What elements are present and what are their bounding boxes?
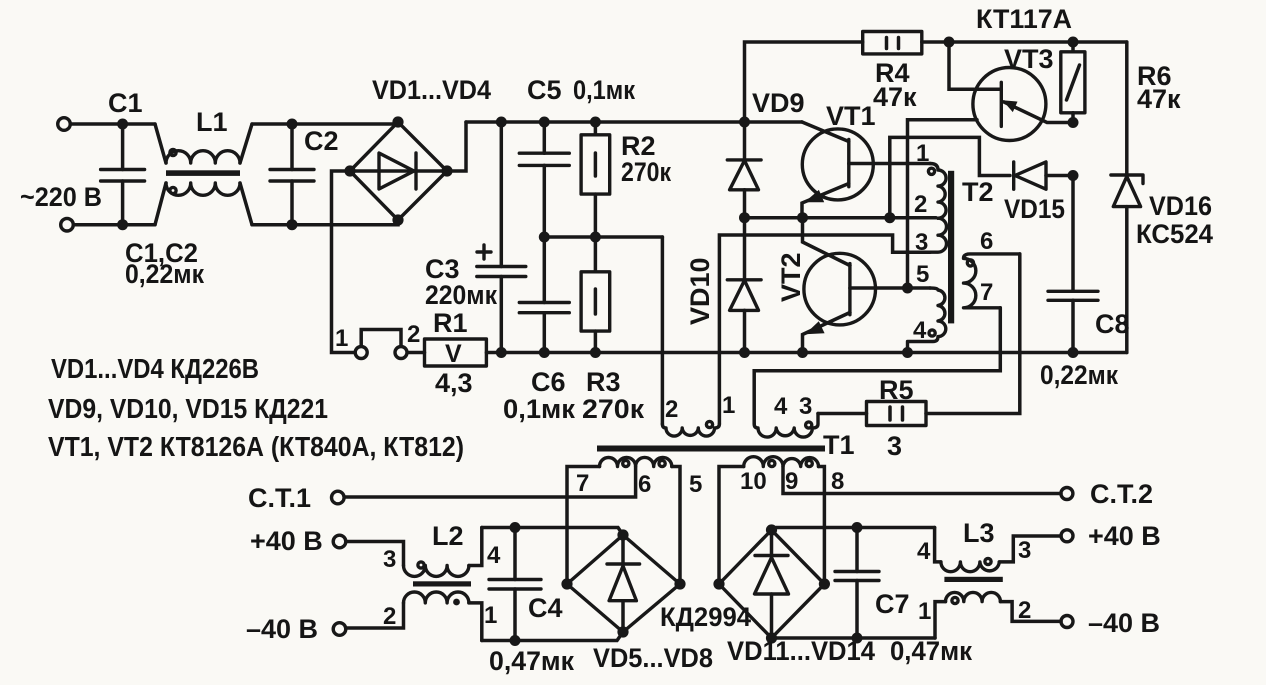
transformer T2 winding 5-4 xyxy=(908,288,946,353)
resistor R1 xyxy=(408,339,487,368)
svg-text:L1: L1 xyxy=(196,107,228,137)
svg-text:4: 4 xyxy=(917,538,931,565)
svg-text:2: 2 xyxy=(914,191,927,218)
svg-text:7: 7 xyxy=(980,279,993,306)
capacitor C8 xyxy=(1048,176,1098,353)
resistor R4 xyxy=(745,32,1127,123)
svg-text:3: 3 xyxy=(799,393,812,420)
bridge rectifier VD5...VD8 xyxy=(561,529,685,637)
svg-text:VD9: VD9 xyxy=(752,88,805,118)
svg-text:1: 1 xyxy=(918,598,931,625)
input terminal top (~220 V) xyxy=(58,118,71,131)
svg-text:VT3: VT3 xyxy=(1004,44,1054,74)
svg-text:5: 5 xyxy=(916,261,929,288)
svg-text:2: 2 xyxy=(1018,597,1031,624)
svg-text:T2: T2 xyxy=(962,177,994,207)
label R3 xyxy=(582,367,645,424)
wire: T2 pin 7 to T1 pin 4 xyxy=(754,308,1000,424)
capacitor C2 xyxy=(270,119,314,231)
wire: T1 pin 10 to bridge VD11-VD14 xyxy=(719,467,744,585)
svg-text:3: 3 xyxy=(1018,537,1031,564)
wire: T1 pin 6 to C.T.1 terminal xyxy=(345,467,636,498)
wire: VT2 base / T2 pin5 to VT3 base1 xyxy=(908,120,978,288)
svg-text:C2: C2 xyxy=(304,126,339,156)
svg-text:1: 1 xyxy=(916,140,929,167)
svg-text:5: 5 xyxy=(689,471,702,498)
terminal C.T.2 xyxy=(1061,488,1073,500)
svg-text:4: 4 xyxy=(487,542,501,569)
svg-text:0,22мк: 0,22мк xyxy=(1040,360,1118,390)
svg-text:2: 2 xyxy=(407,321,420,348)
svg-text:КД2994: КД2994 xyxy=(660,602,751,632)
svg-text:270к: 270к xyxy=(621,157,671,187)
svg-text:4: 4 xyxy=(913,317,927,344)
diode VD10 xyxy=(727,218,761,353)
label C5 xyxy=(527,75,635,105)
wire: bridge left corner to jumper terminal 1 xyxy=(332,171,356,353)
svg-text:3: 3 xyxy=(383,546,396,573)
svg-text:1: 1 xyxy=(484,602,497,629)
svg-text:1: 1 xyxy=(335,325,348,352)
zener diode VD16 xyxy=(1111,42,1143,353)
capacitor C3 (electrolytic 220мк) xyxy=(477,122,526,353)
label C8 xyxy=(1040,309,1130,390)
capacitor C6 xyxy=(519,237,569,353)
svg-text:~220 В: ~220 В xyxy=(20,182,102,212)
svg-text:2: 2 xyxy=(665,396,678,423)
jumper terminal 2 xyxy=(395,347,407,359)
inductor L3 xyxy=(935,528,1061,639)
label C6 xyxy=(503,367,575,424)
wire: T2 tap2 to VD15 (zigzag) xyxy=(890,137,1010,217)
wire: minus rail right (bridge bottom, C7, L3 pin 1) xyxy=(772,633,936,644)
svg-text:R5: R5 xyxy=(879,375,914,405)
svg-text:0,1мк: 0,1мк xyxy=(573,75,635,105)
svg-text:6: 6 xyxy=(638,471,651,498)
capacitor C7 xyxy=(835,528,879,639)
transistor VT2 xyxy=(803,218,931,353)
svg-text:R3: R3 xyxy=(586,367,621,397)
transformer T1 primary winding 2-1 xyxy=(662,421,719,436)
svg-text:3: 3 xyxy=(887,431,902,461)
svg-text:VD9, VD10, VD15 КД221: VD9, VD10, VD15 КД221 xyxy=(48,393,328,424)
svg-text:КС524: КС524 xyxy=(1136,219,1213,249)
svg-text:0,47мк: 0,47мк xyxy=(489,646,574,676)
svg-text:C7: C7 xyxy=(875,589,910,619)
wire: minus rail left (bridge bottom, C4, L2 pin 1) xyxy=(482,632,623,646)
transformer T2 winding 6-7 xyxy=(964,254,1020,308)
svg-text:С.Т.2: С.Т.2 xyxy=(1090,479,1153,509)
label R6 xyxy=(1137,61,1181,114)
wire: R2/R3 junction to T1 primary pin 2 xyxy=(661,237,665,424)
terminal -40 V right xyxy=(1061,616,1073,628)
svg-text:0,47мк: 0,47мк xyxy=(890,636,972,666)
wire: R2/R3 C5/C6 mid junction line xyxy=(539,232,663,243)
label C1,C2 value xyxy=(125,238,204,289)
svg-text:270к: 270к xyxy=(582,394,645,424)
svg-text:4,3: 4,3 xyxy=(435,368,473,398)
jumper link between terminals 1 and 2 xyxy=(361,330,401,347)
transformer T2 core xyxy=(948,171,954,324)
resistor R3 xyxy=(581,237,610,353)
resistor R5 xyxy=(818,254,1020,426)
wire: drive net (VD9/VD10, VT1 emitter, VT2 collector, T2 tap 2) xyxy=(739,212,936,223)
terminal +40 V right xyxy=(1061,530,1073,542)
wire: plus rail right (bridge top, C7, L3 pin 4) xyxy=(772,522,935,533)
transformer T1 feedback winding 4-3 xyxy=(754,414,818,438)
terminal +40 V left xyxy=(333,535,346,548)
input terminal bottom (~220 V) xyxy=(61,218,74,231)
svg-text:2: 2 xyxy=(383,603,396,630)
svg-text:0,22мк: 0,22мк xyxy=(125,259,204,289)
transformer T1 core xyxy=(597,446,825,452)
svg-text:V: V xyxy=(445,340,462,368)
svg-text:VT2: VT2 xyxy=(776,252,806,302)
svg-text:VT1: VT1 xyxy=(826,101,876,131)
svg-text:220мк: 220мк xyxy=(425,280,497,310)
wire: T1 pin 7 to bridge VD5-VD8 xyxy=(567,467,600,585)
svg-text:С.Т.1: С.Т.1 xyxy=(248,483,311,513)
inductor L2 xyxy=(346,528,482,641)
svg-text:R1: R1 xyxy=(433,308,468,338)
svg-text:C1: C1 xyxy=(108,88,143,118)
svg-text:6: 6 xyxy=(980,228,993,255)
svg-text:1: 1 xyxy=(722,392,735,419)
svg-text:VD5...VD8: VD5...VD8 xyxy=(593,643,713,673)
resistor R2 xyxy=(581,122,610,237)
svg-text:C5: C5 xyxy=(527,75,562,105)
wire: T1 pin 5 to bridge VD5-VD8 xyxy=(672,467,680,585)
svg-text:VD1...VD4: VD1...VD4 xyxy=(372,75,491,105)
wire: plus rail left (bridge top, C4, L2 pin 4) xyxy=(482,522,623,535)
svg-text:–40 В: –40 В xyxy=(246,614,318,644)
wire: input top rail xyxy=(71,122,399,126)
label VD16 xyxy=(1136,191,1213,249)
transistor VT3 (unijunction) xyxy=(949,42,1073,141)
svg-text:VD10: VD10 xyxy=(685,257,715,325)
svg-text:10: 10 xyxy=(740,468,767,495)
svg-text:0,1мк: 0,1мк xyxy=(503,394,575,424)
svg-text:VT1, VT2 КТ8126А (КТ840А, КТ81: VT1, VT2 КТ8126А (КТ840А, КТ812) xyxy=(48,431,464,462)
svg-text:L3: L3 xyxy=(963,518,995,548)
svg-text:8: 8 xyxy=(831,468,844,495)
transistor VT1 xyxy=(802,122,930,218)
svg-text:47к: 47к xyxy=(1137,84,1181,114)
label R2 xyxy=(621,131,671,187)
label C3 xyxy=(425,254,497,310)
diode VD9 xyxy=(727,122,761,218)
wire: T1 pin 8 to bridge VD11-VD14 xyxy=(819,467,825,585)
bridge rectifier VD1...VD4 xyxy=(344,116,452,225)
svg-text:–40 В: –40 В xyxy=(1088,608,1160,638)
transformer T1 secondary winding 10-9-8 xyxy=(744,457,819,467)
svg-text:VD16: VD16 xyxy=(1149,191,1212,221)
wire: input bottom rail xyxy=(74,220,399,225)
svg-text:Т1: Т1 xyxy=(823,430,855,460)
svg-text:9: 9 xyxy=(785,468,798,495)
svg-text:КТ117А: КТ117А xyxy=(976,4,1072,34)
transformer T1 secondary winding 7-6-5 xyxy=(600,457,672,466)
svg-text:7: 7 xyxy=(576,470,589,497)
diode VD15 xyxy=(1014,162,1079,189)
transformer T2 winding 1-2 xyxy=(928,164,946,219)
transformer T2 winding 2-3 xyxy=(930,218,947,252)
svg-text:4: 4 xyxy=(774,393,788,420)
capacitor C4 xyxy=(489,528,541,641)
wire: bridge right corner to top rail xyxy=(447,122,466,171)
capacitor C5 xyxy=(519,122,569,237)
wire: T1 pin 1 to T2 pin 3 xyxy=(719,235,930,424)
wire: T1 pin 9 to C.T.2 terminal xyxy=(783,467,1061,494)
svg-text:+40 В: +40 В xyxy=(250,526,323,556)
wire: main top rail (+) xyxy=(466,117,802,128)
inductor L1 (common-mode choke) xyxy=(155,124,252,225)
jumper terminal 1 xyxy=(355,347,367,359)
capacitor C1 xyxy=(101,119,145,231)
svg-text:L2: L2 xyxy=(432,521,464,551)
svg-text:+40 В: +40 В xyxy=(1088,521,1161,551)
svg-text:VD15: VD15 xyxy=(1004,194,1065,224)
bridge rectifier VD11...VD14 xyxy=(713,524,830,643)
terminal -40 V left xyxy=(333,623,346,636)
svg-text:VD1...VD4 КД226В: VD1...VD4 КД226В xyxy=(51,353,259,384)
svg-text:C8: C8 xyxy=(1095,309,1130,339)
resistor R6 xyxy=(1061,42,1085,128)
wire: main bottom rail (-) xyxy=(486,347,1126,358)
svg-text:C6: C6 xyxy=(531,367,566,397)
terminal C.T.1 xyxy=(332,491,345,504)
svg-text:47к: 47к xyxy=(873,82,917,112)
label R4 xyxy=(873,58,917,112)
svg-text:C4: C4 xyxy=(528,593,563,623)
